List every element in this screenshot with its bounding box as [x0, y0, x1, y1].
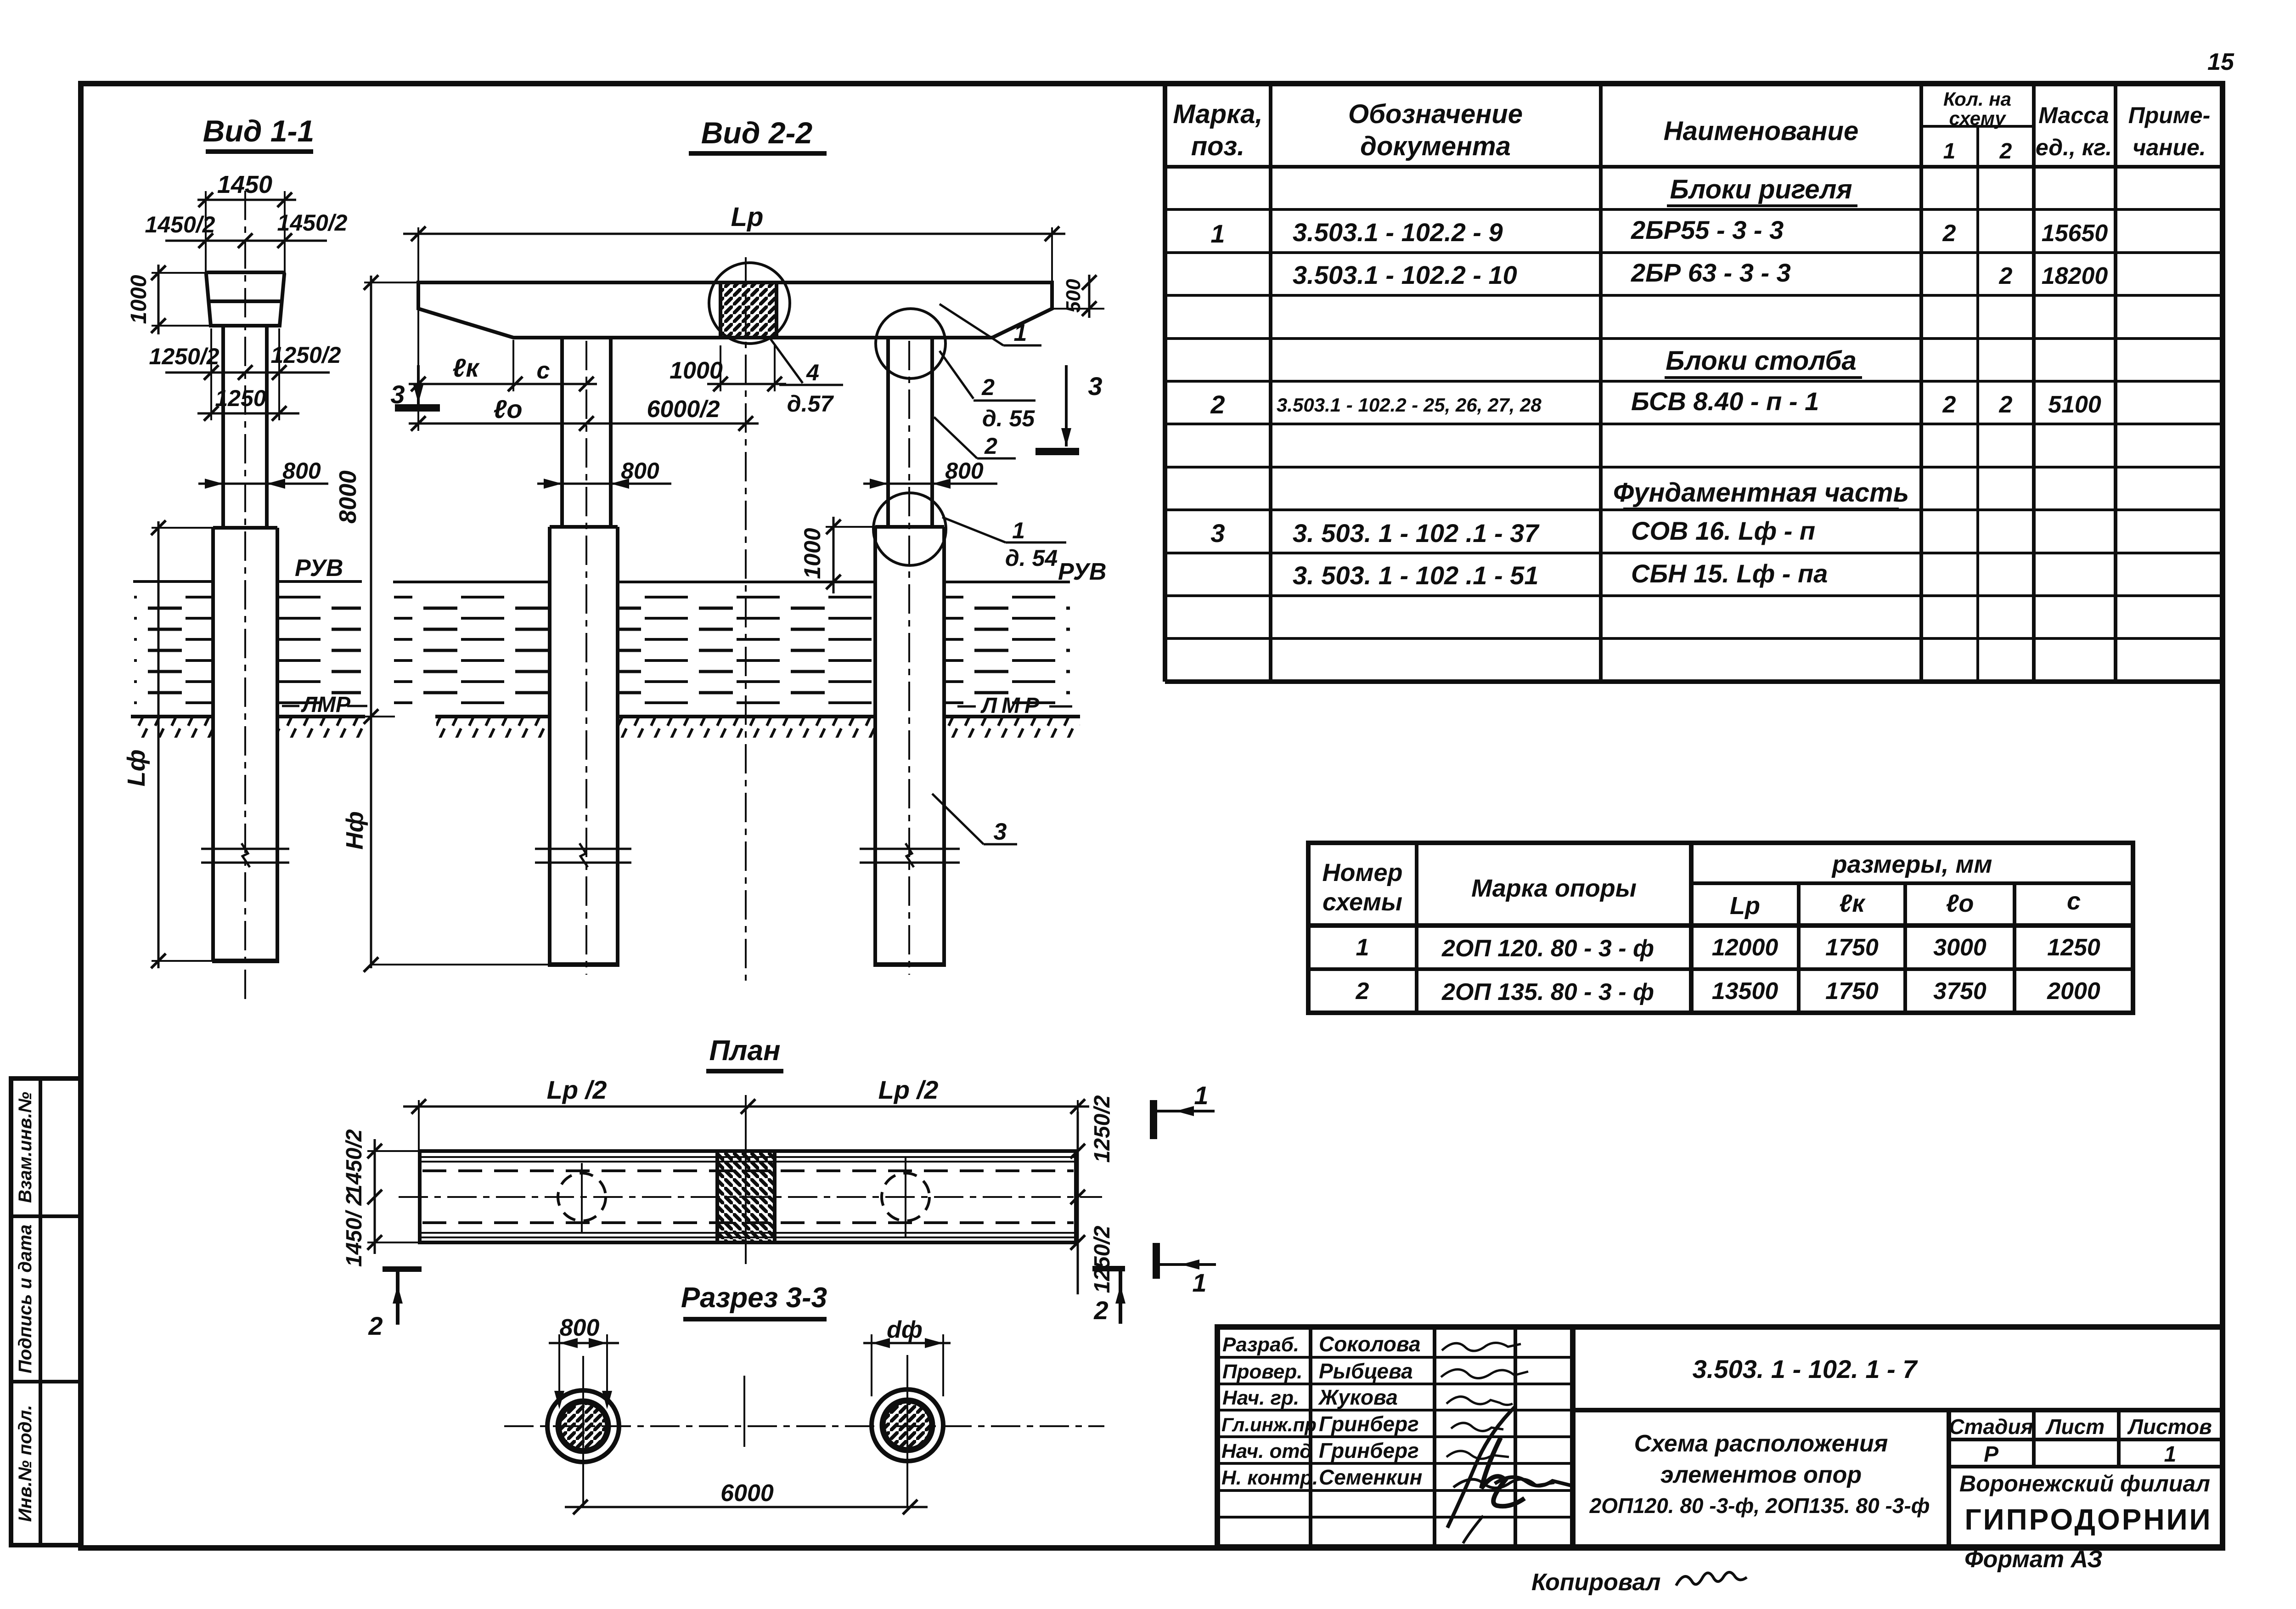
svg-text:ℓо: ℓо [493, 395, 522, 423]
dim Lp [403, 233, 1065, 235]
svg-text:Гринберг: Гринберг [1319, 1439, 1419, 1462]
svg-text:Рыбцева: Рыбцева [1319, 1359, 1413, 1383]
svg-text:3.503. 1 - 102. 1 - 7: 3.503. 1 - 102. 1 - 7 [1693, 1355, 1919, 1383]
svg-text:Lр /2: Lр /2 [547, 1075, 607, 1104]
svg-text:д.57: д.57 [787, 391, 834, 417]
leader 4/d.57 [771, 339, 803, 383]
svg-text:6000: 6000 [720, 1480, 774, 1507]
stage table [1949, 1438, 2223, 1441]
svg-text:1250/2: 1250/2 [271, 342, 341, 368]
dim 800 left column [537, 483, 671, 485]
svg-text:1: 1 [2164, 1442, 2177, 1467]
svg-text:Вид 2-2: Вид 2-2 [701, 116, 813, 150]
svg-text:5100: 5100 [2048, 391, 2101, 418]
extension lines cap bottom [210, 328, 212, 420]
dim 1450 [197, 199, 296, 201]
svg-text:800: 800 [621, 458, 659, 484]
svg-text:Кол. на: Кол. на [1943, 88, 2011, 110]
dim Lf [158, 521, 160, 968]
svg-text:Блоки столба: Блоки столба [1666, 346, 1856, 376]
svg-text:Инв.№ подл.: Инв.№ подл. [15, 1405, 35, 1522]
detail circle d.55 [876, 309, 945, 378]
svg-text:2: 2 [1999, 263, 2013, 289]
extension lines top [205, 191, 207, 273]
detail circle d.57 [709, 263, 790, 344]
SECTION-3-3 [504, 1282, 1104, 1514]
svg-text:СОВ 16. Lф - п: СОВ 16. Lф - п [1631, 516, 1815, 545]
central divider [1573, 1408, 2223, 1412]
dim 800 shaft [198, 483, 328, 485]
right foundation [875, 525, 944, 529]
column circle left (hidden) [558, 1173, 606, 1221]
column shaft [221, 326, 225, 528]
svg-text:схему: схему [1949, 107, 2007, 129]
svg-text:Копировал: Копировал [1531, 1569, 1660, 1596]
centerline right column [908, 341, 910, 975]
svg-text:1750: 1750 [1825, 978, 1879, 1005]
svg-text:1: 1 [1356, 934, 1369, 961]
svg-text:2: 2 [1356, 978, 1369, 1005]
svg-text:ℓк: ℓк [452, 353, 480, 382]
centerline left column [585, 341, 587, 975]
PARTS-TABLE [1165, 84, 2223, 682]
SIZES-TABLE [1308, 843, 2133, 1013]
svg-text:Lр: Lр [1730, 892, 1760, 920]
svg-text:ℓо: ℓо [1946, 890, 1974, 917]
svg-text:Гринберг: Гринберг [1319, 1412, 1419, 1436]
svg-text:Н. контр.: Н. контр. [1221, 1467, 1318, 1489]
svg-text:2: 2 [368, 1311, 383, 1340]
svg-text:Воронежский филиал: Воронежский филиал [1959, 1471, 2210, 1496]
svg-text:2: 2 [984, 433, 997, 459]
svg-text:2000: 2000 [2047, 978, 2100, 1005]
svg-text:ℓк: ℓк [1839, 890, 1866, 917]
dim 6000 [565, 1506, 928, 1508]
svg-text:2ОП 120. 80 - 3 - ф: 2ОП 120. 80 - 3 - ф [1441, 935, 1654, 962]
svg-text:поз.: поз. [1191, 131, 1245, 161]
svg-text:1250/2: 1250/2 [1090, 1225, 1114, 1293]
centerline axis [244, 191, 246, 999]
svg-text:Схема расположения: Схема расположения [1634, 1430, 1888, 1457]
svg-text:Соколова: Соколова [1319, 1332, 1421, 1356]
svg-text:2ОП 135. 80 - 3 - ф: 2ОП 135. 80 - 3 - ф [1441, 979, 1654, 1005]
svg-text:Lф: Lф [123, 750, 150, 787]
LEFT-STAMPS [11, 1078, 81, 1545]
svg-text:Lр: Lр [731, 202, 764, 232]
svg-text:2БР55 - 3 - 3: 2БР55 - 3 - 3 [1631, 215, 1784, 244]
svg-text:БСВ 8.40 - п - 1: БСВ 8.40 - п - 1 [1631, 387, 1819, 416]
label 2 column [934, 417, 977, 458]
signatures squiggles [1442, 1343, 1521, 1351]
title block signature grid [1309, 1327, 1312, 1547]
water shading [134, 590, 212, 710]
dim 8000 and Nf [370, 276, 372, 968]
dim 1250 [197, 412, 299, 415]
svg-text:3.503.1 - 102.2 - 9: 3.503.1 - 102.2 - 9 [1293, 218, 1503, 247]
svg-text:1250/2: 1250/2 [1090, 1095, 1114, 1163]
svg-text:1000: 1000 [127, 275, 151, 324]
svg-text:2: 2 [1999, 391, 2013, 418]
svg-text:1: 1 [1012, 518, 1025, 543]
svg-text:д. 54: д. 54 [1005, 545, 1058, 571]
ground line [435, 715, 550, 718]
section mark 2 right [1092, 1266, 1125, 1271]
svg-text:6000/2: 6000/2 [647, 396, 720, 423]
water level line [393, 581, 550, 583]
section mark 3 right [1035, 448, 1079, 455]
svg-text:Формат АЗ: Формат АЗ [1964, 1546, 2103, 1573]
dim 1000 foundation top [833, 517, 835, 593]
label 1 beam [940, 304, 1003, 345]
TITLE-BLOCK [1217, 1327, 2223, 1596]
left foundation [550, 525, 618, 529]
dim 800 [549, 1342, 619, 1344]
svg-text:13500: 13500 [1712, 978, 1778, 1005]
svg-text:Lр /2: Lр /2 [878, 1075, 939, 1104]
svg-text:Подпись и дата: Подпись и дата [15, 1225, 35, 1373]
svg-text:схемы: схемы [1322, 888, 1402, 916]
svg-text:8000: 8000 [335, 470, 361, 524]
left pile section [547, 1390, 619, 1462]
section mark 2 left [383, 1266, 422, 1272]
svg-text:15: 15 [2207, 49, 2234, 75]
svg-text:1: 1 [1210, 219, 1225, 248]
svg-text:1450/ 2: 1450/ 2 [342, 1193, 366, 1267]
svg-text:Семенкин: Семенкин [1319, 1465, 1422, 1489]
water shading [394, 590, 550, 710]
svg-text:3.503.1 - 102.2 - 10: 3.503.1 - 102.2 - 10 [1293, 260, 1517, 289]
svg-text:2: 2 [1999, 139, 2012, 164]
svg-text:чание.: чание. [2133, 135, 2206, 160]
hidden edges [422, 1169, 1074, 1172]
svg-text:3. 503. 1 - 102 .1 - 51: 3. 503. 1 - 102 .1 - 51 [1293, 561, 1538, 590]
svg-text:Нач. отд: Нач. отд [1221, 1440, 1312, 1462]
svg-text:Приме-: Приме- [2128, 102, 2211, 128]
ground label [282, 705, 299, 707]
svg-text:1: 1 [1943, 139, 1956, 164]
svg-text:3: 3 [994, 819, 1007, 845]
right pile section [872, 1389, 943, 1461]
svg-text:2: 2 [1210, 390, 1225, 419]
dims lk c [409, 383, 597, 385]
svg-text:СБН 15. Lф - па: СБН 15. Lф - па [1631, 559, 1828, 588]
dim 1000 cap height [158, 265, 160, 334]
svg-text:Взам.инв.№: Взам.инв.№ [15, 1092, 35, 1203]
svg-text:1: 1 [1192, 1268, 1206, 1297]
svg-text:2: 2 [981, 374, 995, 400]
svg-text:Масса: Масса [2038, 102, 2109, 128]
parts table grid [1163, 84, 1167, 682]
left dim 1450/2 [374, 1139, 376, 1254]
svg-text:ед., кг.: ед., кг. [2036, 135, 2112, 160]
svg-text:Листов: Листов [2127, 1415, 2212, 1439]
svg-text:Марка,: Марка, [1173, 99, 1262, 129]
svg-text:1000: 1000 [670, 357, 723, 384]
svg-text:800: 800 [560, 1315, 600, 1341]
dim 1000 joint [707, 383, 786, 385]
svg-text:3: 3 [1088, 372, 1102, 401]
dims lo 6000/2 [409, 423, 759, 425]
dim 800 right column [863, 483, 997, 485]
svg-text:800: 800 [282, 458, 321, 484]
section mark 1 top [1150, 1100, 1157, 1139]
label 1/d.54 [942, 517, 1006, 542]
svg-text:2: 2 [1942, 220, 1956, 247]
water level line [133, 580, 213, 583]
plan centerline [399, 1196, 1102, 1198]
svg-text:1000: 1000 [799, 528, 825, 579]
centerline midspan [745, 257, 747, 981]
svg-text:1: 1 [1194, 1081, 1208, 1110]
svg-text:д. 55: д. 55 [982, 406, 1035, 431]
svg-text:Блоки ригеля: Блоки ригеля [1670, 175, 1852, 204]
svg-text:Гл.инж.пр: Гл.инж.пр [1221, 1414, 1317, 1435]
svg-text:3000: 3000 [1933, 934, 1986, 961]
svg-text:dф: dф [887, 1316, 923, 1343]
svg-text:элементов опор: элементов опор [1660, 1462, 1862, 1488]
svg-text:ГИПРОДОРНИИ: ГИПРОДОРНИИ [1964, 1503, 2212, 1536]
svg-text:Марка опоры: Марка опоры [1471, 875, 1637, 902]
crossbeam [418, 282, 1052, 338]
svg-text:3: 3 [1210, 519, 1225, 548]
svg-text:3.503.1 - 102.2 - 25, 26, 27,: 3.503.1 - 102.2 - 25, 26, 27, 28 [1277, 394, 1542, 416]
svg-text:РУВ: РУВ [295, 555, 343, 581]
svg-text:1750: 1750 [1825, 934, 1879, 961]
svg-text:500: 500 [1062, 279, 1085, 313]
svg-text:Обозначение: Обозначение [1348, 99, 1523, 129]
svg-text:Нф: Нф [342, 811, 368, 850]
svg-text:Лист: Лист [2045, 1415, 2105, 1439]
svg-text:План: План [709, 1035, 780, 1067]
VIEW-1-1 [123, 114, 367, 999]
dim 1450/2 [165, 240, 327, 242]
svg-text:Провер.: Провер. [1222, 1361, 1302, 1383]
dim 500 beam end [1054, 308, 1104, 310]
VIEW-2-2 [335, 116, 1106, 981]
dim 1250/2 [165, 372, 330, 374]
svg-text:2БР 63 - 3 - 3: 2БР 63 - 3 - 3 [1631, 258, 1791, 287]
svg-text:Разрез 3-3: Разрез 3-3 [681, 1282, 827, 1314]
svg-text:1: 1 [1014, 320, 1027, 346]
svg-text:Разраб.: Разраб. [1222, 1333, 1299, 1356]
svg-text:Р: Р [1984, 1442, 1999, 1467]
dims Lp/2 [403, 1106, 1089, 1108]
svg-text:Вид 1-1: Вид 1-1 [203, 114, 315, 148]
PLAN-VIEW [342, 1035, 1216, 1340]
expansion joint block [720, 284, 777, 338]
svg-text:Фундаментная часть: Фундаментная часть [1613, 478, 1909, 508]
left column [560, 338, 564, 527]
svg-text:с: с [2067, 887, 2081, 915]
section mark 1 bottom [1153, 1243, 1160, 1279]
column circle right (hidden) [882, 1173, 929, 1221]
svg-text:4: 4 [806, 360, 819, 385]
svg-text:3750: 3750 [1933, 978, 1986, 1005]
foundation pile [213, 526, 277, 530]
svg-text:Номер: Номер [1322, 859, 1403, 886]
svg-text:1250/2: 1250/2 [149, 344, 219, 369]
svg-text:3: 3 [390, 380, 405, 409]
column cap [206, 272, 284, 326]
svg-text:800: 800 [945, 458, 984, 484]
svg-text:Наименование: Наименование [1664, 116, 1858, 146]
svg-text:18200: 18200 [2042, 263, 2108, 289]
svg-text:документа: документа [1360, 131, 1511, 161]
right column [886, 338, 890, 527]
svg-text:1250: 1250 [2047, 934, 2100, 961]
svg-text:1450/2: 1450/2 [145, 212, 215, 237]
centerlines [504, 1425, 1104, 1427]
svg-text:1450/2: 1450/2 [342, 1129, 366, 1197]
label 3 foundation [932, 794, 984, 844]
svg-text:12000: 12000 [1712, 934, 1778, 961]
svg-text:15650: 15650 [2042, 220, 2108, 247]
svg-text:с: с [537, 357, 550, 384]
dim df [863, 1342, 951, 1344]
ground line [131, 715, 213, 718]
svg-text:1450/2: 1450/2 [277, 210, 348, 236]
label 2/d.55 [940, 351, 974, 399]
svg-text:2ОП120. 80 -3-ф, 2ОП135. 80 -: 2ОП120. 80 -3-ф, 2ОП135. 80 -3-ф [1589, 1494, 1930, 1518]
pile break symbol [201, 848, 289, 850]
svg-text:размеры, мм: размеры, мм [1831, 851, 1992, 878]
svg-text:ЛМР: ЛМР [301, 693, 351, 717]
svg-text:2: 2 [1942, 391, 1956, 418]
detail circle d.54 [873, 493, 946, 565]
svg-text:1250: 1250 [215, 385, 266, 411]
svg-text:Стадия: Стадия [1949, 1415, 2033, 1439]
svg-text:Жукова: Жукова [1318, 1385, 1398, 1409]
joint block plan [717, 1151, 775, 1242]
svg-text:2: 2 [1093, 1296, 1108, 1325]
right dim 1250/2 [1077, 1112, 1079, 1294]
svg-text:Нач. гр.: Нач. гр. [1222, 1387, 1299, 1409]
crossbeam plan outline [420, 1151, 1076, 1242]
svg-text:3. 503. 1 - 102 .1 - 37: 3. 503. 1 - 102 .1 - 37 [1293, 519, 1540, 548]
ground label right [957, 706, 976, 708]
section mark 3 left [395, 404, 440, 412]
